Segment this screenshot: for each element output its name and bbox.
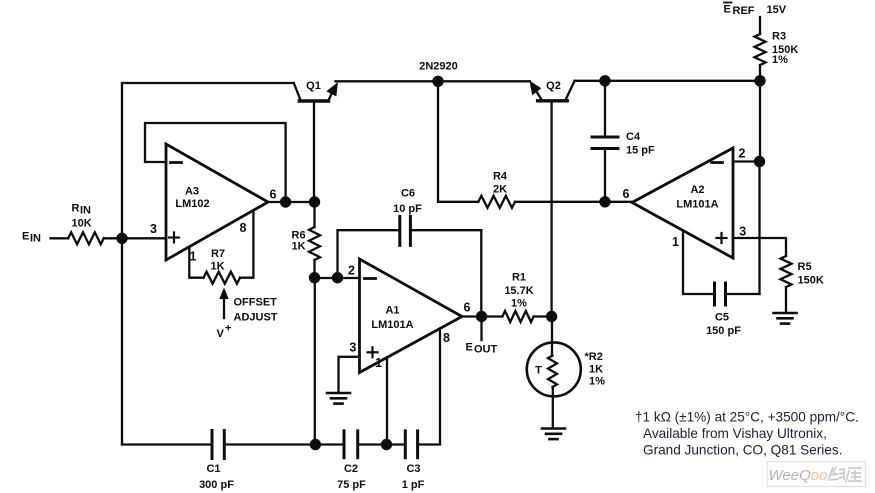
wire A2 pin2 — [733, 160, 760, 162]
node 2N2920 — [432, 76, 443, 87]
svg-text:T: T — [535, 365, 542, 377]
node bottom rail / A1 pin1 junction — [381, 439, 392, 450]
svg-text:†1 kΩ (±1%) at 25°C, +3500 ppm: †1 kΩ (±1%) at 25°C, +3500 ppm/°C. — [635, 410, 859, 425]
node C6 left junction — [332, 272, 343, 283]
capacitor C4 — [604, 81, 606, 137]
capacitor C2 — [343, 431, 346, 458]
svg-text:C6: C6 — [401, 188, 415, 200]
A2 minus symbol — [712, 161, 723, 164]
node input junction — [116, 233, 127, 244]
svg-text:Q2: Q2 — [546, 80, 561, 92]
wire A3 output — [268, 201, 315, 203]
svg-text:1: 1 — [190, 250, 197, 264]
svg-text:1K: 1K — [292, 241, 306, 253]
wire top rail Q2 to R3 column — [575, 80, 761, 82]
wire A1 pin3 to ground — [339, 357, 360, 393]
wire thermistor to ground — [552, 387, 554, 428]
capacitor C1 — [211, 431, 214, 459]
svg-text:1K: 1K — [589, 364, 603, 376]
A3 minus symbol — [171, 161, 182, 164]
capacitor C5 loop — [683, 231, 715, 295]
svg-text:LM101A: LM101A — [371, 319, 413, 331]
A2 plus symbol — [717, 237, 727, 239]
svg-text:1%: 1% — [589, 376, 605, 388]
svg-text:A2: A2 — [690, 184, 704, 196]
wire EOUT stub — [480, 317, 482, 341]
svg-text:3: 3 — [349, 341, 356, 355]
wire bottom rail mid — [224, 443, 344, 445]
wire top rail Q1 to 2N2920 node — [336, 80, 439, 82]
svg-text:R5: R5 — [798, 261, 812, 273]
svg-text:2: 2 — [348, 264, 355, 278]
wire Q1 base lead — [313, 101, 315, 202]
svg-text:E: E — [724, 4, 731, 16]
node R1 / Q2 base / R2 junction — [546, 311, 557, 322]
svg-text:R1: R1 — [512, 272, 526, 284]
resistor R7 — [204, 272, 240, 284]
svg-text:8: 8 — [443, 331, 450, 345]
wire EREF lead — [759, 17, 761, 34]
node R6 bottom junction — [309, 272, 320, 283]
node A3 feedback junction — [280, 196, 291, 207]
op-amp A1 — [360, 259, 463, 373]
node C4 bottom / A2 output junction — [599, 196, 610, 207]
A1 minus symbol — [365, 277, 376, 280]
resistor R4 — [478, 196, 515, 208]
wire left vertical — [121, 83, 123, 445]
svg-text:A1: A1 — [385, 305, 399, 317]
svg-text:1K: 1K — [210, 261, 224, 273]
node EOUT label — [466, 342, 498, 356]
wire A1 output — [462, 315, 502, 317]
svg-text:OFFSET: OFFSET — [234, 297, 278, 309]
op-amp A2 — [632, 148, 733, 258]
wire A3 pin1 lead — [189, 247, 203, 278]
svg-text:300 pF: 300 pF — [199, 479, 234, 491]
wire bottom rail left — [122, 443, 212, 445]
svg-text:Q1: Q1 — [306, 80, 321, 92]
svg-text:E: E — [466, 342, 473, 354]
svg-text:6: 6 — [270, 188, 277, 202]
svg-text:R7: R7 — [211, 248, 225, 260]
svg-text:IN: IN — [30, 233, 41, 245]
svg-text:REF: REF — [733, 5, 755, 17]
R7 wiper arrow — [219, 288, 229, 300]
svg-text:2N2920: 2N2920 — [419, 61, 458, 73]
svg-text:WeeQoo: WeeQoo — [769, 467, 828, 484]
wire R1 to node — [534, 315, 552, 317]
svg-text:2: 2 — [739, 147, 746, 161]
node R3 rail junction — [754, 75, 765, 86]
wire to A1 minus input — [315, 277, 360, 279]
svg-text:V: V — [217, 328, 225, 340]
wire A3 feedback loop — [145, 123, 286, 202]
resistor R6 — [313, 202, 315, 227]
transistor Q2 — [529, 81, 541, 96]
node V+ label — [217, 323, 232, 341]
node A2 pin2 junction — [754, 156, 765, 167]
svg-text:R: R — [72, 203, 80, 215]
node bottom rail / R6 column junction — [310, 439, 321, 450]
wire EIN lead — [51, 237, 69, 239]
A1 plus symbol — [368, 351, 378, 353]
svg-text:1%: 1% — [511, 298, 527, 310]
svg-text:150K: 150K — [798, 275, 824, 287]
node A1 output junction — [476, 311, 487, 322]
wire Q2 base lead — [550, 101, 552, 317]
svg-text:C1: C1 — [206, 463, 220, 475]
svg-text:LM102: LM102 — [175, 198, 209, 210]
ground R2 — [542, 427, 565, 430]
ground A1 pin3 — [327, 392, 350, 395]
wire pin2 node down to C5 loop — [758, 162, 760, 295]
svg-text:6: 6 — [464, 301, 471, 315]
svg-text:R3: R3 — [772, 31, 786, 43]
svg-text:Available from Vishay Ultronix: Available from Vishay Ultronix, — [643, 426, 827, 441]
node EREF label — [724, 4, 755, 18]
A3 plus symbol — [169, 236, 179, 238]
svg-text:1%: 1% — [772, 54, 788, 66]
svg-text:3: 3 — [739, 225, 746, 239]
svg-text:Grand Junction, CO, Q81 Series: Grand Junction, CO, Q81 Series. — [643, 443, 842, 458]
svg-text:8: 8 — [240, 221, 247, 235]
wire RIN to A3 pin3 — [104, 237, 166, 239]
svg-text:ADJUST: ADJUST — [234, 312, 278, 324]
resistor R5 — [781, 256, 792, 287]
svg-text:10 pF: 10 pF — [393, 203, 422, 215]
svg-text:6: 6 — [623, 187, 630, 201]
ground R5 — [774, 312, 797, 315]
svg-text:IN: IN — [80, 205, 91, 217]
wire top rail node to Q2 — [438, 80, 530, 82]
svg-text:*R2: *R2 — [585, 351, 603, 363]
wire bottom rail between C2 C3 — [358, 443, 406, 445]
node EIN label — [22, 231, 41, 245]
svg-text:R4: R4 — [493, 171, 508, 183]
wire 2N2920 node down and to R4 — [438, 81, 478, 202]
capacitor C6 — [338, 230, 400, 278]
svg-text:OUT: OUT — [474, 344, 498, 356]
wire R4 to A2 output — [515, 201, 632, 203]
svg-text:150 pF: 150 pF — [706, 325, 741, 337]
resistor RIN — [68, 232, 104, 244]
svg-text:C2: C2 — [344, 463, 358, 475]
resistor R1 — [502, 311, 533, 322]
wire R3 to A2 pin2 — [759, 65, 761, 162]
watermark box — [768, 462, 866, 487]
svg-text:3: 3 — [150, 222, 157, 236]
transistor Q1 — [294, 83, 301, 100]
resistor R3 — [755, 34, 766, 65]
svg-text:15.7K: 15.7K — [504, 285, 533, 297]
svg-text:+: + — [225, 323, 231, 335]
node C4 top junction — [599, 75, 610, 86]
svg-text:2K: 2K — [493, 184, 507, 196]
wire A1 pin8 lead — [418, 330, 440, 445]
wire R6 node to bottom rail — [314, 278, 316, 445]
wire A3 pin8 lead — [240, 211, 253, 278]
svg-text:LM101A: LM101A — [676, 199, 718, 211]
svg-text:1 pF: 1 pF — [402, 479, 425, 491]
svg-text:C4: C4 — [626, 131, 641, 143]
node A3 output / R6 / Q1 base junction — [309, 196, 320, 207]
capacitor C3 — [404, 431, 407, 458]
svg-text:75 pF: 75 pF — [337, 479, 366, 491]
wire node to thermistor — [551, 317, 553, 357]
svg-text:15 pF: 15 pF — [626, 144, 655, 156]
op-amp A3 — [166, 144, 268, 260]
wire A2 pin3 — [733, 238, 786, 256]
wire R5 to ground — [785, 287, 787, 313]
thermistor R2 — [527, 342, 581, 396]
svg-text:C3: C3 — [406, 463, 420, 475]
svg-text:10K: 10K — [72, 218, 92, 230]
wire top-left horizontal to Q1 collector — [122, 82, 294, 84]
wire A1 pin1 lead — [386, 357, 388, 444]
svg-text:A3: A3 — [185, 186, 199, 198]
svg-text:C5: C5 — [715, 312, 729, 324]
svg-text:1: 1 — [375, 356, 382, 370]
svg-text:E: E — [22, 231, 29, 243]
svg-text:15V: 15V — [767, 4, 787, 16]
svg-text:1: 1 — [672, 235, 679, 249]
